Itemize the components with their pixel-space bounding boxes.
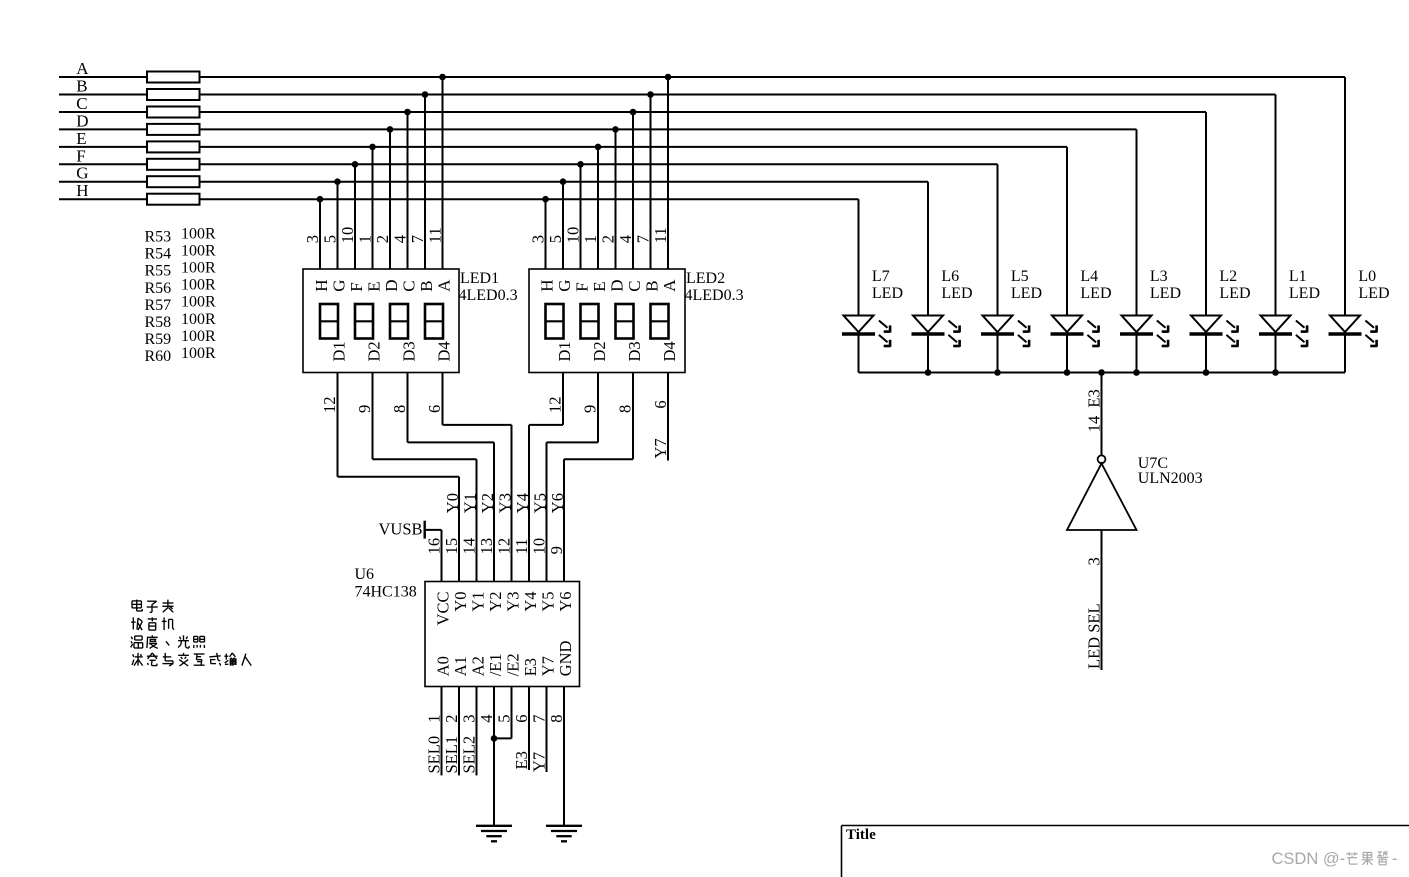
junction LED1 pin H on row H <box>317 196 324 203</box>
wire row A drop to LED column <box>1344 77 1346 316</box>
svg-text:Y4: Y4 <box>521 592 540 612</box>
svg-text:R57: R57 <box>145 297 172 314</box>
svg-text:13: 13 <box>477 538 496 555</box>
junction LED1 pin G on row G <box>334 178 341 185</box>
LED L7 emission arrow 1 <box>879 321 888 328</box>
wire U6 pin 1 vertical <box>441 687 443 776</box>
svg-text:11: 11 <box>651 227 670 243</box>
wire LED2 pin A vertical <box>667 77 669 269</box>
LED L5 emission arrow 2 <box>1018 335 1027 342</box>
svg-text:14: 14 <box>460 538 479 555</box>
wire U6 pin 16 vertical <box>441 530 443 582</box>
svg-text:6: 6 <box>512 714 531 722</box>
svg-text:Y0: Y0 <box>443 493 462 513</box>
svg-text:R60: R60 <box>145 348 172 365</box>
resistor R54 body <box>147 89 200 100</box>
svg-text:LED2: LED2 <box>686 270 725 287</box>
junction LED2 pin E on row E <box>595 144 602 151</box>
svg-text:B: B <box>76 77 87 96</box>
svg-text:VUSB: VUSB <box>378 520 422 539</box>
wire row H right segment <box>200 198 859 200</box>
svg-text:6: 6 <box>425 405 444 413</box>
display LED2 body <box>529 269 685 373</box>
svg-text:Title: Title <box>846 827 876 843</box>
junction LED2 pin G on row G <box>560 178 567 185</box>
wire net Y6 horizontal <box>564 458 633 460</box>
LED2 digit 2 glyph <box>581 304 599 339</box>
wire U6 pin 13 vertical <box>493 442 495 581</box>
svg-text:E3: E3 <box>512 751 531 769</box>
LED2 bottom pin 8 wire <box>632 373 634 460</box>
LED L3 emission arrow 2 <box>1157 335 1166 342</box>
wire row E left segment <box>59 146 147 148</box>
wire row G right segment <box>200 181 929 183</box>
svg-text:4: 4 <box>391 235 410 243</box>
svg-text:Y0: Y0 <box>451 592 470 612</box>
svg-text:R54: R54 <box>145 246 172 263</box>
svg-text:F: F <box>573 282 592 291</box>
svg-text:10: 10 <box>564 227 583 244</box>
resistor R55 body <box>147 107 200 118</box>
junction LED2 pin D on row D <box>612 126 619 133</box>
svg-text:100R: 100R <box>181 294 216 311</box>
svg-text:2: 2 <box>373 235 392 243</box>
junction LED1 pin C on row C <box>404 109 411 116</box>
svg-text:10: 10 <box>530 538 549 555</box>
svg-text:1: 1 <box>581 235 600 243</box>
junction on LED bus <box>1272 369 1279 376</box>
wire U6 pin 3 vertical <box>476 687 478 776</box>
svg-text:E3: E3 <box>521 658 540 676</box>
LED L7 emission arrow 2 <box>879 335 888 342</box>
svg-text:LED1: LED1 <box>460 270 499 287</box>
svg-text:100R: 100R <box>181 345 216 362</box>
svg-text:VCC: VCC <box>434 592 453 626</box>
svg-text:5: 5 <box>321 235 340 243</box>
svg-text:7: 7 <box>408 235 427 243</box>
svg-text:LED: LED <box>1150 285 1181 302</box>
wire row D left segment <box>59 128 147 130</box>
LED1 bottom pin 9 wire <box>372 373 374 460</box>
svg-text:9: 9 <box>581 405 600 413</box>
svg-text:D3: D3 <box>400 341 419 361</box>
LED L1 emission arrow 2 <box>1296 335 1305 342</box>
watermark hanzi <box>1346 853 1357 855</box>
junction LED2 pin A on row A <box>665 74 672 81</box>
wire LED1 pin F vertical <box>354 164 356 269</box>
svg-text:10: 10 <box>338 227 357 244</box>
junction on LED bus <box>1133 369 1140 376</box>
diode L6 triangle <box>913 316 943 333</box>
LED L2 emission arrow 1 <box>1226 321 1235 328</box>
diode L6 cathode bar <box>912 332 945 335</box>
wire U6 pin 9 vertical <box>563 459 565 581</box>
diode L3 triangle <box>1122 316 1152 333</box>
wire row D drop to LED column <box>1136 129 1138 315</box>
diode L7 triangle <box>844 316 874 333</box>
wire net Y4 horizontal <box>529 424 563 426</box>
annotation line 1 (dianzibiao) <box>132 600 141 602</box>
junction LED2 pin B on row B <box>647 91 654 98</box>
svg-text:U6: U6 <box>355 566 375 583</box>
svg-text:2: 2 <box>442 714 461 722</box>
wire net Y2 horizontal <box>408 441 495 443</box>
wire row D right segment <box>200 128 1137 130</box>
LED L0 emission arrow 2 <box>1365 335 1374 342</box>
svg-text:B: B <box>643 280 662 291</box>
IC U6 74HC138 body <box>425 582 580 687</box>
wire U6 pin 10 vertical <box>546 442 548 581</box>
wire LED1 pin E vertical <box>372 147 374 269</box>
junction LED1 pin B on row B <box>422 91 429 98</box>
svg-text:15: 15 <box>442 538 461 555</box>
wire LED2 pin C vertical <box>632 112 634 269</box>
svg-text:A2: A2 <box>469 656 488 676</box>
svg-text:9: 9 <box>547 546 566 554</box>
power port VUSB bar <box>424 521 426 539</box>
svg-text:8: 8 <box>547 714 566 722</box>
svg-text:4: 4 <box>477 714 496 722</box>
svg-text:D4: D4 <box>435 341 454 361</box>
LED2 bottom pin 12 wire <box>562 373 564 425</box>
svg-text:E: E <box>76 129 86 148</box>
LED2 digit 3 glyph <box>616 304 634 339</box>
LED2 bottom pin 6 stub wire (net Y7) <box>667 373 669 461</box>
LED L2 emission arrow 2 <box>1226 335 1235 342</box>
svg-text:R55: R55 <box>145 263 172 280</box>
wire VUSB to U6 pin 16 <box>425 529 442 531</box>
svg-text:Y7: Y7 <box>530 752 549 772</box>
svg-text:R59: R59 <box>145 331 172 348</box>
svg-text:D2: D2 <box>365 341 384 361</box>
wire row H left segment <box>59 198 147 200</box>
svg-text:LED: LED <box>1219 285 1250 302</box>
wire U6 pin 8 vertical <box>563 687 565 826</box>
wire net Y3 horizontal <box>443 424 512 426</box>
LED L6 emission arrow 2 <box>948 335 957 342</box>
svg-text:3: 3 <box>303 235 322 243</box>
diode L4 triangle <box>1052 316 1082 333</box>
svg-text:R56: R56 <box>145 280 172 297</box>
svg-text:CSDN @-: CSDN @- <box>1272 850 1346 868</box>
buffer U7C triangle <box>1067 463 1137 530</box>
wire LED2 pin F vertical <box>580 164 582 269</box>
svg-text:LED: LED <box>872 285 903 302</box>
svg-text:3: 3 <box>460 714 479 722</box>
resistor R53 body <box>147 72 200 83</box>
svg-text:5: 5 <box>546 235 565 243</box>
svg-text:8: 8 <box>616 405 635 413</box>
svg-text:C: C <box>400 280 419 291</box>
wire L6 cathode to bus <box>927 335 929 373</box>
svg-text:7: 7 <box>634 235 653 243</box>
annotation line 4 (zhuangtai...) <box>133 654 134 657</box>
diode L3 cathode bar <box>1120 332 1153 335</box>
wire /E2 jog to /E1 <box>494 737 512 739</box>
svg-text:E: E <box>590 281 609 291</box>
diode L5 cathode bar <box>981 332 1014 335</box>
wire row A left segment <box>59 76 147 78</box>
wire row H drop to LED column <box>858 199 860 315</box>
LED L4 emission arrow 1 <box>1087 321 1096 328</box>
svg-text:L4: L4 <box>1080 268 1098 285</box>
diode L1 cathode bar <box>1259 332 1292 335</box>
svg-text:Y5: Y5 <box>531 493 550 513</box>
wire U6 pin 11 vertical <box>528 425 530 582</box>
wire U6 pin 14 vertical <box>476 459 478 581</box>
svg-text:G: G <box>76 164 88 183</box>
svg-text:D2: D2 <box>590 341 609 361</box>
svg-text:12: 12 <box>546 397 565 414</box>
junction on LED bus <box>1064 369 1071 376</box>
wire U6 pin 2 vertical <box>458 687 460 776</box>
LED L1 emission arrow 1 <box>1296 321 1305 328</box>
svg-text:-: - <box>1392 850 1398 868</box>
ground symbol at GND pin 8 <box>546 825 582 827</box>
svg-text:Y2: Y2 <box>486 592 505 612</box>
diode L4 cathode bar <box>1051 332 1084 335</box>
svg-text:12: 12 <box>495 538 514 555</box>
svg-text:A1: A1 <box>451 656 470 676</box>
svg-text:1: 1 <box>356 235 375 243</box>
LED L6 emission arrow 1 <box>948 321 957 328</box>
svg-text:Y6: Y6 <box>556 592 575 612</box>
svg-text:A: A <box>660 279 679 292</box>
svg-text:LED: LED <box>941 285 972 302</box>
svg-text:7: 7 <box>530 714 549 722</box>
LED2 digit 1 glyph <box>546 304 564 339</box>
wire row G drop to LED column <box>927 182 929 316</box>
svg-text:L7: L7 <box>872 268 890 285</box>
wire LED cathode bus <box>859 372 1346 374</box>
junction on LED bus <box>1203 369 1210 376</box>
svg-text:3: 3 <box>529 235 548 243</box>
svg-text:F: F <box>347 282 366 291</box>
diode L5 triangle <box>983 316 1013 333</box>
svg-text:12: 12 <box>320 397 339 414</box>
wire LED2 pin E vertical <box>597 147 599 269</box>
LED1 digit 1 glyph <box>320 304 338 339</box>
U7C inversion bubble <box>1098 455 1106 463</box>
LED1 digit 2 glyph <box>355 304 373 339</box>
svg-text:L2: L2 <box>1219 268 1237 285</box>
svg-text:100R: 100R <box>181 311 216 328</box>
wire row C right segment <box>200 111 1207 113</box>
svg-text:E3: E3 <box>1085 389 1104 407</box>
wire row E drop to LED column <box>1066 147 1068 316</box>
wire row F right segment <box>200 163 998 165</box>
junction /E1-/E2 <box>491 735 498 742</box>
svg-text:100R: 100R <box>181 225 216 242</box>
svg-text:LED: LED <box>1080 285 1111 302</box>
svg-text:Y5: Y5 <box>539 592 558 612</box>
svg-text:A0: A0 <box>434 656 453 676</box>
wire U6 pin 5 vertical <box>511 687 513 739</box>
junction LED1 pin F on row F <box>352 161 359 168</box>
svg-text:A: A <box>76 59 89 78</box>
wire row C drop to LED column <box>1205 112 1207 316</box>
svg-text:100R: 100R <box>181 328 216 345</box>
svg-text:Y3: Y3 <box>504 592 523 612</box>
LED L4 emission arrow 2 <box>1087 335 1096 342</box>
svg-text:GND: GND <box>556 640 575 676</box>
diode L2 cathode bar <box>1190 332 1223 335</box>
wire LED1 pin G vertical <box>337 182 339 269</box>
resistor R60 body <box>147 194 200 205</box>
diode L0 triangle <box>1330 316 1360 333</box>
wire LED1 pin C vertical <box>407 112 409 269</box>
LED L3 emission arrow 1 <box>1157 321 1166 328</box>
wire U6 pin 12 vertical <box>511 425 513 582</box>
diode L2 triangle <box>1191 316 1221 333</box>
svg-text:100R: 100R <box>181 277 216 294</box>
svg-text:Y6: Y6 <box>548 493 567 513</box>
svg-text:4LED0.3: 4LED0.3 <box>685 287 744 304</box>
title block left line <box>841 826 843 877</box>
junction LED2 pin C on row C <box>630 109 637 116</box>
wire L4 cathode to bus <box>1066 335 1068 373</box>
wire LED2 pin B vertical <box>650 95 652 270</box>
wire row B right segment <box>200 94 1276 96</box>
svg-text:4LED0.3: 4LED0.3 <box>459 287 518 304</box>
LED2 digit 4 glyph <box>651 304 669 339</box>
wire L0 cathode to bus <box>1344 335 1346 373</box>
ground symbol at /E1//E2 <box>476 825 512 827</box>
svg-text:/E2: /E2 <box>504 653 523 676</box>
LED2 bottom pin 9 wire <box>597 373 599 443</box>
svg-text:D3: D3 <box>625 341 644 361</box>
LED1 bottom pin 6 wire <box>442 373 444 425</box>
wire row G left segment <box>59 181 147 183</box>
svg-text:D4: D4 <box>660 341 679 361</box>
resistor R59 body <box>147 176 200 187</box>
svg-text:Y7: Y7 <box>651 438 670 458</box>
resistor R57 body <box>147 141 200 152</box>
wire bus to U7C input <box>1101 373 1103 456</box>
svg-text:SEL1: SEL1 <box>442 736 461 774</box>
svg-text:R53: R53 <box>145 229 172 246</box>
svg-text:L1: L1 <box>1289 268 1307 285</box>
LED1 digit 3 glyph <box>390 304 408 339</box>
svg-text:Y1: Y1 <box>461 493 480 513</box>
svg-text:/E1: /E1 <box>486 653 505 676</box>
LED1 bottom pin 8 wire <box>407 373 409 443</box>
wire U6 pin 4 vertical <box>493 687 495 826</box>
junction bus to U7C <box>1098 369 1105 376</box>
wire U6 pin 15 vertical <box>458 477 460 582</box>
svg-text:H: H <box>538 280 557 292</box>
wire LED1 pin B vertical <box>424 95 426 270</box>
wire row B drop to LED column <box>1275 95 1277 316</box>
svg-text:9: 9 <box>355 405 374 413</box>
display LED1 body <box>303 269 459 373</box>
diode L7 cathode bar <box>842 332 875 335</box>
LED1 bottom pin 12 wire <box>337 373 339 477</box>
svg-text:D: D <box>382 280 401 292</box>
svg-text:G: G <box>555 280 574 292</box>
svg-text:A: A <box>435 279 454 292</box>
svg-text:D: D <box>608 280 627 292</box>
svg-text:74HC138: 74HC138 <box>355 583 417 600</box>
wire L3 cathode to bus <box>1136 335 1138 373</box>
junction on LED bus <box>925 369 932 376</box>
svg-text:5: 5 <box>495 714 514 722</box>
svg-text:16: 16 <box>425 538 444 555</box>
svg-text:Y1: Y1 <box>469 592 488 612</box>
junction LED1 pin D on row D <box>387 126 394 133</box>
svg-text:H: H <box>312 280 331 292</box>
annotation line 3 (wendu guangzhao) <box>131 637 132 640</box>
junction LED1 pin E on row E <box>369 144 376 151</box>
junction LED1 pin A on row A <box>439 74 446 81</box>
svg-text:D1: D1 <box>555 341 574 361</box>
wire LED2 pin D vertical <box>615 129 617 269</box>
svg-text:8: 8 <box>390 405 409 413</box>
svg-text:4: 4 <box>616 235 635 243</box>
svg-text:2: 2 <box>599 235 618 243</box>
wire net Y5 horizontal <box>547 441 599 443</box>
resistor R56 body <box>147 124 200 135</box>
diode L1 triangle <box>1261 316 1291 333</box>
wire L5 cathode to bus <box>997 335 999 373</box>
resistor R58 body <box>147 159 200 170</box>
wire net Y0 horizontal <box>338 476 460 478</box>
svg-text:H: H <box>76 181 88 200</box>
svg-text:Y3: Y3 <box>496 493 515 513</box>
svg-text:L3: L3 <box>1150 268 1168 285</box>
wire row E right segment <box>200 146 1068 148</box>
svg-text:D: D <box>76 111 88 130</box>
wire net Y1 horizontal <box>373 458 477 460</box>
wire LED2 pin G vertical <box>562 182 564 269</box>
diode L0 cathode bar <box>1329 332 1362 335</box>
wire row F drop to LED column <box>997 164 999 315</box>
svg-text:11: 11 <box>426 227 445 243</box>
svg-text:L6: L6 <box>941 268 959 285</box>
svg-text:3: 3 <box>1085 557 1104 565</box>
svg-text:SEL0: SEL0 <box>425 736 444 774</box>
wire LED2 pin H vertical <box>545 199 547 269</box>
svg-text:R58: R58 <box>145 314 172 331</box>
wire U7C output down <box>1101 530 1103 670</box>
wire L1 cathode to bus <box>1275 335 1277 373</box>
svg-text:D1: D1 <box>330 341 349 361</box>
svg-text:SEL2: SEL2 <box>460 736 479 774</box>
svg-text:B: B <box>417 280 436 291</box>
LED L5 emission arrow 1 <box>1018 321 1027 328</box>
svg-text:1: 1 <box>425 714 444 722</box>
wire LED1 pin A vertical <box>442 77 444 269</box>
wire row A right segment <box>200 76 1346 78</box>
junction LED2 pin F on row F <box>577 161 584 168</box>
svg-text:C: C <box>76 94 87 113</box>
svg-text:14: 14 <box>1085 416 1104 433</box>
svg-text:LED SEL: LED SEL <box>1085 603 1104 669</box>
svg-text:LED: LED <box>1289 285 1320 302</box>
svg-text:L5: L5 <box>1011 268 1029 285</box>
svg-text:Y7: Y7 <box>539 656 558 676</box>
wire U6 pin 7 vertical <box>546 687 548 773</box>
LED1 digit 4 glyph <box>425 304 443 339</box>
wire L7 cathode to bus <box>858 335 860 373</box>
svg-text:100R: 100R <box>181 260 216 277</box>
wire LED1 pin H vertical <box>319 199 321 269</box>
junction on LED bus <box>994 369 1001 376</box>
svg-text:ULN2003: ULN2003 <box>1138 470 1203 487</box>
svg-text:6: 6 <box>651 400 670 408</box>
svg-text:L0: L0 <box>1358 268 1376 285</box>
wire row B left segment <box>59 94 147 96</box>
